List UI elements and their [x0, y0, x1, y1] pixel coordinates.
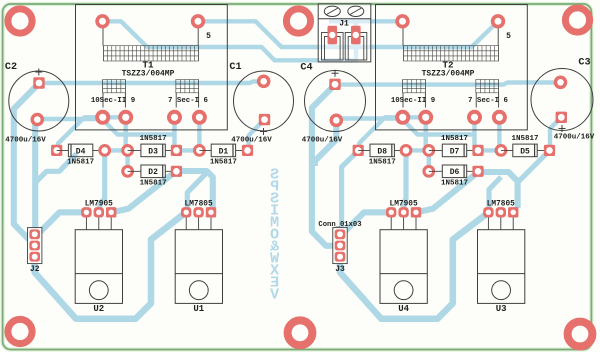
D7 anode pad: [422, 144, 435, 157]
T1 pad 1: [95, 14, 109, 28]
svg-text:TSZZ3/004MP: TSZZ3/004MP: [122, 70, 175, 79]
C1 negative pad: [257, 75, 271, 89]
T1 pad 9: [118, 110, 133, 125]
D2 anode pad: [121, 165, 134, 178]
svg-text:1N5817: 1N5817: [369, 159, 396, 167]
wire D8-D7 link: [406, 148, 429, 152]
J3 pad 2: [335, 241, 346, 251]
C3 positive pad: [556, 112, 567, 123]
wire T2 pin10 to D8: [359, 117, 402, 148]
svg-text:1N5817: 1N5817: [140, 135, 167, 143]
D5 anode pad: [495, 144, 508, 157]
T2 pad 6: [492, 110, 507, 125]
C3 negative pad: [554, 76, 568, 90]
svg-text:10Sec-​II 9: 10Sec-​II 9: [91, 97, 135, 105]
wire C4+ to C3 rail: [335, 83, 561, 85]
connector J1 body: [318, 4, 371, 62]
C4 negative pad: [330, 114, 344, 128]
U1 pad 3: [206, 207, 216, 217]
capacitor C2 outline: [9, 71, 69, 131]
svg-text:4700u/16V: 4700u/16V: [554, 134, 595, 142]
wire J1 pad1 stub: [330, 33, 334, 47]
wire C1+ to D1: [249, 120, 265, 152]
T2 primary winding: [404, 46, 499, 61]
wire D8 to J3 pad1: [342, 154, 355, 234]
J3 pad 1: [335, 229, 346, 239]
T2 pad 5: [491, 14, 505, 28]
svg-text:D3: D3: [148, 147, 158, 156]
C4 polarity mark: [332, 70, 339, 77]
svg-text:1N5817: 1N5817: [67, 159, 94, 167]
capacitor C1 outline: [234, 71, 294, 131]
connector J2 outline: [28, 228, 42, 264]
mounting hole top-right: [565, 8, 589, 32]
wire C3+ to D5: [550, 117, 561, 150]
U2 pad 3: [106, 207, 116, 217]
wire D5 to U3 stair: [519, 154, 547, 182]
wire D8 to U4 pad2: [404, 150, 406, 212]
svg-text:D6: D6: [450, 168, 460, 177]
mounting hole bottom-left: [8, 319, 32, 343]
J2 pad 1: [29, 229, 40, 239]
T2 pad 9: [418, 110, 433, 125]
C2 positive pad: [33, 77, 44, 88]
T2 secondary winding: [476, 80, 499, 93]
svg-text:D5: D5: [520, 147, 530, 156]
U3 pin lines: [488, 217, 513, 230]
J2 pad 3: [29, 252, 40, 262]
wire bottom right loop J3-U3: [340, 213, 488, 319]
wire D4 route to J2: [35, 154, 76, 183]
svg-text:D4: D4: [76, 147, 86, 156]
svg-text:C2: C2: [5, 62, 17, 73]
svg-text:4700u/16V: 4700u/16V: [302, 137, 343, 145]
D6 cathode pad: [472, 166, 483, 177]
wire D6 to U3 pad3: [478, 172, 517, 208]
svg-text:5: 5: [206, 32, 211, 41]
D4 anode pad: [98, 144, 111, 157]
D8 cathode pad: [353, 145, 364, 156]
diode D2 outline: [141, 165, 165, 178]
wire C2+ to J2 pad2: [14, 83, 39, 245]
U2 pad 2: [94, 207, 104, 217]
copper text (mirrored): [269, 166, 279, 304]
wire D7-D5 link: [478, 148, 501, 152]
U1 pad 1: [181, 207, 191, 217]
mounting hole bottom-center: [288, 320, 313, 345]
T1 pin stubs: [103, 27, 199, 108]
T1 pad 5: [191, 14, 205, 28]
J1 clamp boxes: [322, 33, 367, 61]
wire T1 pad2 / J1 pad1 / T2 rail: [198, 21, 498, 47]
svg-text:V: V: [269, 286, 279, 304]
svg-text:TSZZ3/004MP: TSZZ3/004MP: [422, 70, 475, 79]
U3 pad 2: [496, 207, 506, 217]
svg-text:1N5817: 1N5817: [441, 135, 468, 143]
diode D1 outline: [211, 144, 235, 157]
svg-text:5: 5: [506, 32, 511, 41]
wire C4- to T2 sec: [338, 117, 404, 118]
D1 anode pad: [193, 144, 206, 157]
diode D7 outline: [442, 144, 466, 157]
D5 cathode pad: [544, 145, 555, 156]
mounting hole top-center: [286, 9, 310, 33]
svg-text:J2: J2: [30, 265, 40, 274]
D2 cathode pad: [171, 166, 182, 177]
D3 cathode pad: [171, 145, 182, 156]
U4 pin lines: [391, 217, 416, 230]
svg-text:U3: U3: [496, 304, 507, 314]
T2 pin stubs: [403, 27, 499, 108]
diode D5 outline: [513, 144, 537, 157]
capacitor C3 outline: [531, 69, 593, 131]
U3 pad 3: [508, 207, 518, 217]
T1 secondary winding: [176, 80, 199, 93]
svg-text:C3: C3: [578, 58, 590, 69]
diode D4 outline: [68, 144, 92, 157]
wire C4- down: [315, 120, 336, 166]
T2 pad 10: [395, 110, 410, 125]
wire T1 pin9 to D3/D2: [103, 117, 128, 171]
svg-text:U4: U4: [398, 304, 409, 314]
wire T2 pin10 to D7 right: [403, 120, 473, 135]
T1 pad 6: [192, 110, 207, 125]
C2 polarity mark: [35, 69, 42, 76]
U4 pad 3: [411, 207, 421, 217]
wire D4-D3 link: [105, 148, 128, 152]
wire to U3 pad1: [489, 177, 501, 212]
U1 pad 2: [193, 207, 203, 217]
svg-text:7 Sec-I 6: 7 Sec-I 6: [168, 97, 208, 105]
regulator U4 outline: [380, 230, 427, 304]
svg-text:Conn_01x03: Conn_01x03: [318, 221, 361, 229]
T1 pad 7: [167, 110, 182, 125]
C1 positive pad: [259, 114, 270, 125]
C1 polarity mark: [260, 128, 267, 135]
mounting hole bottom-right: [568, 322, 593, 347]
wire C2- to T1 sec: [39, 117, 103, 119]
svg-text:1N5817: 1N5817: [210, 159, 237, 167]
D6 anode pad: [422, 165, 435, 178]
T2 pad 7: [467, 110, 482, 125]
T2 pad 1: [395, 14, 409, 28]
D8 anode pad: [400, 144, 413, 157]
svg-text:D2: D2: [148, 168, 158, 177]
svg-text:4700u/16V: 4700u/16V: [231, 137, 272, 145]
U3 pad 1: [483, 207, 493, 217]
wire T1 pin7 down: [175, 117, 177, 150]
svg-text:J3: J3: [335, 265, 345, 274]
wire to U1 pad1: [187, 173, 206, 212]
wire T1 pin6 to D1: [197, 117, 201, 150]
U2 pin lines: [86, 217, 111, 230]
svg-text:1N5817: 1N5817: [511, 135, 538, 143]
svg-text:D8: D8: [377, 147, 387, 156]
D4 cathode pad: [51, 145, 62, 156]
J1 pad 2: [351, 26, 361, 45]
diode D6 outline: [442, 165, 466, 178]
U4 pad 1: [386, 207, 396, 217]
T1 primary winding: [104, 46, 199, 61]
svg-text:10Sec-​II 9: 10Sec-​II 9: [391, 97, 435, 105]
svg-text:D1: D1: [219, 147, 229, 156]
wire U4 pad3 to D6: [417, 172, 479, 213]
diode D3 outline: [141, 144, 165, 157]
svg-text:U2: U2: [93, 304, 104, 314]
svg-text:C4: C4: [300, 63, 312, 74]
C3 polarity mark: [559, 125, 566, 132]
J1 pad 1: [328, 26, 338, 45]
wire U2 pad1 to J2 pad1: [37, 212, 87, 235]
wire T1 pin10 to D3 right: [103, 120, 173, 135]
T2 secondary winding: [403, 80, 426, 93]
wire T2 pin7 down: [475, 117, 478, 150]
D1 cathode pad: [242, 145, 253, 156]
U2 pad 1: [81, 207, 91, 217]
J3 pad 3: [335, 252, 346, 262]
wire T2 pin9 to D7/D6: [403, 117, 429, 171]
connector J1 outline: [318, 4, 371, 62]
J2 pad 2: [29, 241, 40, 251]
T1 secondary winding: [103, 80, 126, 93]
regulator U3 outline: [478, 230, 525, 304]
wire T1 pin10 to D4: [58, 117, 103, 148]
wire C2- down to J2: [35, 120, 37, 233]
wire bottom left loop J2-U1: [35, 213, 186, 319]
C4 positive pad: [329, 79, 340, 90]
capacitor C4 outline: [305, 71, 366, 132]
svg-text:7 Sec-I 6: 7 Sec-I 6: [468, 97, 508, 105]
svg-text:1N5817: 1N5817: [140, 180, 167, 188]
transformer T1 outline: [76, 5, 228, 130]
connector J3 outline: [333, 228, 347, 264]
wire U2 pad3 to D2: [112, 171, 176, 212]
wire C2+ to C1 rail: [39, 81, 264, 83]
wire T2 pad1 to J1: [329, 19, 403, 23]
wire D3-D1 link: [176, 148, 199, 152]
D3 anode pad: [121, 144, 134, 157]
wire T2 pin6 to D5: [497, 117, 501, 150]
diode D8 outline: [370, 144, 394, 157]
svg-text:J1: J1: [339, 20, 349, 29]
transformer T2 outline: [376, 5, 528, 130]
svg-text:1N5817: 1N5817: [441, 180, 468, 188]
U1 pin lines: [186, 217, 211, 230]
wire D4 to U2 pad2: [100, 150, 105, 212]
svg-text:4700u/16V: 4700u/16V: [5, 137, 46, 145]
mounting hole top-left: [8, 9, 32, 33]
T1 pad 10: [95, 110, 110, 125]
wire U4 pad1 to J3 pad1: [342, 212, 392, 235]
wire C4+ to J3 pad2: [312, 85, 339, 246]
U4 pad 2: [398, 207, 408, 217]
wire J1 pad2 stub: [354, 21, 358, 33]
svg-text:D7: D7: [450, 147, 460, 156]
wire D2 to U1 pad3: [176, 171, 212, 208]
regulator U2 outline: [75, 230, 122, 304]
D7 cathode pad: [472, 145, 483, 156]
svg-text:C1: C1: [229, 62, 241, 73]
C2 negative pad: [31, 113, 45, 127]
svg-text:U1: U1: [193, 304, 204, 314]
regulator U1 outline: [175, 230, 222, 304]
wire T1 pad1 to J1 pad2 rail: [103, 21, 357, 60]
